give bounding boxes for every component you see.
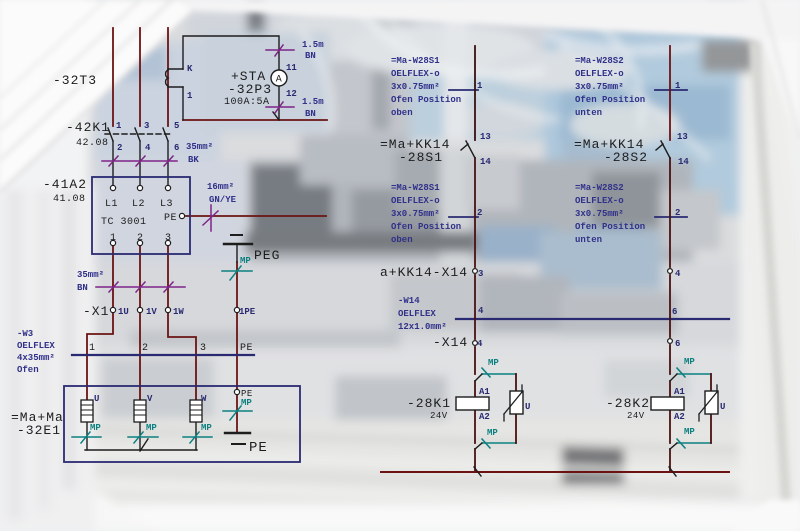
svg-text:-X1: -X1 — [83, 304, 109, 319]
svg-text:=Ma-W28S1: =Ma-W28S1 — [391, 183, 440, 193]
svg-text:13: 13 — [480, 132, 491, 142]
svg-text:-28K1: -28K1 — [407, 396, 451, 411]
svg-text:100A:5A: 100A:5A — [224, 97, 270, 108]
svg-text:unten: unten — [575, 235, 602, 245]
svg-text:A1: A1 — [674, 387, 685, 397]
svg-text:4: 4 — [675, 269, 681, 279]
svg-text:Ofen Position: Ofen Position — [575, 95, 645, 105]
svg-text:-W3: -W3 — [17, 329, 33, 339]
svg-text:OELFLEX-o: OELFLEX-o — [575, 69, 624, 79]
svg-text:3: 3 — [144, 121, 149, 131]
svg-text:-W14: -W14 — [398, 296, 420, 306]
svg-text:BK: BK — [188, 155, 199, 165]
svg-text:-X14: -X14 — [433, 335, 468, 350]
svg-text:A2: A2 — [479, 412, 490, 422]
svg-text:A2: A2 — [674, 412, 685, 422]
svg-text:oben: oben — [391, 108, 413, 118]
svg-text:Ofen: Ofen — [17, 365, 39, 375]
svg-text:6: 6 — [672, 307, 677, 317]
svg-text:-42K1: -42K1 — [66, 120, 110, 135]
svg-text:=Ma-W28S2: =Ma-W28S2 — [575, 56, 624, 66]
svg-text:1: 1 — [477, 81, 483, 91]
svg-text:2: 2 — [117, 143, 122, 153]
svg-text:3: 3 — [165, 233, 172, 244]
svg-text:-28K2: -28K2 — [606, 396, 650, 411]
svg-text:1.5m: 1.5m — [302, 97, 324, 107]
svg-text:MP: MP — [201, 423, 212, 433]
svg-text:14: 14 — [678, 157, 689, 167]
svg-text:W: W — [201, 394, 207, 404]
svg-text:unten: unten — [575, 108, 602, 118]
svg-text:MP: MP — [146, 423, 157, 433]
svg-text:42.08: 42.08 — [76, 138, 109, 149]
svg-text:oben: oben — [391, 235, 413, 245]
svg-text:3x0.75mm²: 3x0.75mm² — [391, 82, 440, 92]
svg-text:L2: L2 — [132, 199, 145, 210]
svg-text:GN/YE: GN/YE — [209, 195, 237, 205]
svg-text:2: 2 — [137, 233, 144, 244]
svg-text:6: 6 — [174, 143, 179, 153]
svg-text:2: 2 — [675, 208, 680, 218]
svg-text:5: 5 — [174, 121, 179, 131]
svg-text:1PE: 1PE — [239, 307, 256, 317]
svg-text:K: K — [187, 64, 193, 74]
svg-text:35mm²: 35mm² — [77, 270, 104, 280]
svg-text:U: U — [525, 402, 530, 412]
svg-text:U: U — [720, 402, 725, 412]
svg-text:4: 4 — [477, 339, 483, 349]
svg-text:-32T3: -32T3 — [53, 73, 97, 88]
svg-text:PE: PE — [249, 440, 268, 456]
svg-text:3: 3 — [200, 343, 207, 354]
svg-text:V: V — [147, 394, 153, 404]
svg-text:BN: BN — [305, 109, 316, 119]
svg-text:OELFLEX: OELFLEX — [17, 341, 55, 351]
svg-text:12x1.0mm²: 12x1.0mm² — [398, 322, 447, 332]
svg-text:6: 6 — [675, 339, 680, 349]
svg-text:-28S1: -28S1 — [399, 150, 443, 165]
svg-text:1: 1 — [116, 121, 122, 131]
svg-text:=Ma-W28S2: =Ma-W28S2 — [575, 183, 624, 193]
svg-text:2: 2 — [142, 343, 149, 354]
svg-text:Ofen Position: Ofen Position — [391, 95, 461, 105]
svg-text:-41A2: -41A2 — [43, 177, 87, 192]
svg-text:1: 1 — [187, 91, 193, 101]
svg-text:L1: L1 — [105, 199, 118, 210]
svg-text:1: 1 — [675, 81, 681, 91]
svg-text:1: 1 — [89, 343, 96, 354]
svg-text:-32P3: -32P3 — [228, 82, 272, 97]
svg-text:4: 4 — [478, 306, 484, 316]
svg-text:PE: PE — [164, 213, 177, 224]
svg-text:12: 12 — [286, 89, 297, 99]
svg-text:3: 3 — [478, 269, 483, 279]
svg-text:PEG: PEG — [254, 248, 280, 263]
svg-text:MP: MP — [90, 423, 101, 433]
svg-text:OELFLEX-o: OELFLEX-o — [391, 196, 440, 206]
svg-text:U: U — [94, 394, 99, 404]
svg-text:BN: BN — [77, 283, 88, 293]
svg-text:1: 1 — [110, 233, 117, 244]
svg-text:-28S2: -28S2 — [604, 150, 648, 165]
svg-text:16mm²: 16mm² — [207, 182, 234, 192]
svg-text:1W: 1W — [173, 307, 184, 317]
svg-text:=Ma-W28S1: =Ma-W28S1 — [391, 56, 440, 66]
svg-text:A: A — [276, 75, 283, 86]
svg-text:A1: A1 — [479, 387, 490, 397]
svg-text:14: 14 — [480, 157, 491, 167]
svg-text:24V: 24V — [430, 411, 448, 421]
svg-text:BN: BN — [305, 51, 316, 61]
svg-text:OELFLEX-o: OELFLEX-o — [391, 69, 440, 79]
svg-text:11: 11 — [286, 63, 297, 73]
svg-text:MP: MP — [241, 398, 252, 408]
svg-text:MP: MP — [240, 256, 251, 266]
svg-text:24V: 24V — [627, 411, 645, 421]
svg-text:1U: 1U — [118, 307, 129, 317]
svg-text:3x0.75mm²: 3x0.75mm² — [391, 209, 440, 219]
svg-text:L3: L3 — [160, 199, 173, 210]
svg-text:1.5m: 1.5m — [302, 40, 324, 50]
svg-text:MP: MP — [684, 427, 695, 437]
svg-text:35mm²: 35mm² — [186, 142, 213, 152]
svg-text:OELFLEX: OELFLEX — [398, 309, 436, 319]
svg-text:1V: 1V — [146, 307, 157, 317]
svg-text:OELFLEX-o: OELFLEX-o — [575, 196, 624, 206]
svg-text:2: 2 — [477, 208, 482, 218]
svg-text:Ofen Position: Ofen Position — [575, 222, 645, 232]
svg-text:41.08: 41.08 — [53, 194, 86, 205]
svg-text:a+KK14-X14: a+KK14-X14 — [380, 265, 468, 280]
svg-text:MP: MP — [487, 428, 498, 438]
svg-text:4: 4 — [145, 143, 151, 153]
svg-text:PE: PE — [240, 343, 253, 354]
svg-text:3x0.75mm²: 3x0.75mm² — [575, 209, 624, 219]
svg-text:Ofen Position: Ofen Position — [391, 222, 461, 232]
svg-text:13: 13 — [677, 132, 688, 142]
svg-text:-32E1: -32E1 — [17, 423, 61, 438]
svg-text:MP: MP — [684, 357, 695, 367]
svg-text:4x35mm²: 4x35mm² — [17, 353, 55, 363]
svg-text:TC 3001: TC 3001 — [101, 217, 147, 228]
svg-text:3x0.75mm²: 3x0.75mm² — [575, 82, 624, 92]
svg-text:MP: MP — [488, 358, 499, 368]
